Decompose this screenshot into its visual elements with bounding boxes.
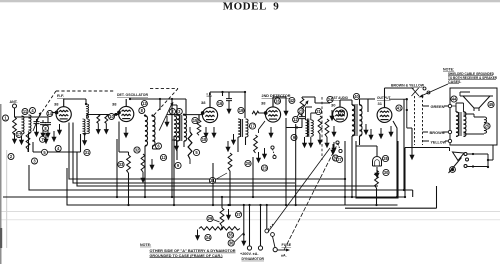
wire RF plate top: [64, 99, 86, 104]
ground arrow mid cluster: [149, 159, 154, 170]
IF T1 core: [180, 115, 182, 141]
ground arrow under primary: [19, 134, 24, 145]
junction dot 160-99: [159, 98, 161, 100]
twisted pair into cable: [412, 88, 420, 97]
callout 9: [175, 162, 181, 168]
junction dot 352 bus: [351, 196, 353, 198]
scan artifact: faint horizontal rule 2: [0, 218, 500, 221]
junction dot 295.7 bus: [295, 204, 297, 206]
junction dot sw b: [487, 159, 489, 161]
wire switch pole lead: [266, 205, 268, 229]
IF transformer T1 secondary: [184, 115, 187, 141]
svg-text:40: 40: [354, 94, 359, 99]
switch wiring right: [467, 154, 488, 167]
svg-text:23: 23: [299, 109, 304, 114]
svg-text:38: 38: [112, 102, 117, 107]
wire: bottom bus y190: [29, 165, 413, 197]
audio transformer core: [355, 104, 357, 136]
ground arrow under antenna resistor: [12, 133, 17, 144]
wire yellow lead: [423, 140, 449, 142]
svg-text:17: 17: [250, 124, 255, 129]
IF T2 core: [241, 119, 243, 137]
svg-text:29: 29: [208, 216, 213, 221]
ground arrow T2 a: [231, 134, 236, 145]
tube V6 output 31: [377, 95, 392, 122]
wire pot top: [302, 97, 315, 98]
svg-text:BROWN: BROWN: [430, 131, 445, 135]
svg-text:21: 21: [316, 109, 321, 114]
svg-text:YELLOW: YELLOW: [431, 141, 447, 145]
ground arrow interstage b: [308, 137, 313, 148]
svg-text:ANT.: ANT.: [10, 100, 18, 104]
antenna terminal: [13, 104, 17, 108]
wire: bottom bus y205: [67, 168, 398, 205]
audio section shield dashed: [321, 97, 323, 160]
wire switch b to fuse: [273, 236, 276, 247]
ground arrow right of output: [409, 149, 414, 160]
junction dot 374 bus: [375, 204, 377, 206]
callout 40: [353, 93, 359, 99]
wire output plate up: [385, 88, 415, 99]
junction dot 405-197: [404, 196, 406, 198]
capacitor, tuning: [34, 119, 40, 126]
junction dot osc plate: [129, 98, 131, 100]
wire output cathode drop: [393, 121, 397, 197]
callout 16b above det: [274, 98, 280, 104]
ground arrow det cluster b: [262, 148, 267, 159]
dashed top edge: [56, 90, 114, 92]
wire into rheostat: [449, 148, 451, 152]
audio transformer secondary: [360, 105, 363, 136]
svg-text:NOTE:: NOTE:: [140, 243, 151, 247]
ground arrow tap: [172, 139, 177, 141]
wire output grid riser: [368, 98, 375, 100]
svg-text:+200V. ±A.: +200V. ±A.: [240, 252, 259, 256]
wire: bottom bus y208: [345, 186, 437, 208]
callout 13: [141, 101, 147, 107]
ground arrow pair mid-left a: [43, 133, 48, 144]
capacitor column 2: [40, 120, 46, 127]
ground arrow tone switch: [330, 144, 335, 155]
svg-text:1ST AUDIO: 1ST AUDIO: [332, 96, 348, 100]
callout 21: [209, 177, 215, 183]
callout 12b: [293, 117, 299, 123]
tube V4 2nd detector 38: [261, 94, 291, 122]
svg-text:45: 45: [489, 102, 494, 107]
resistor under T2: [254, 135, 258, 153]
callout 25: [484, 123, 490, 129]
dashed diagonal fuse lead: [284, 143, 338, 250]
callout 2 osc: [170, 109, 176, 115]
wire osc coils bottom: [145, 136, 174, 205]
svg-text:37: 37: [236, 212, 241, 217]
callout 4: [30, 108, 36, 114]
callout 18: [201, 136, 207, 142]
callout 17 left: [16, 132, 22, 138]
junction dot 406.8a: [406, 98, 408, 100]
screen bus wire: [33, 151, 81, 153]
wire cap to tap: [286, 121, 302, 128]
bias resistor b: [105, 115, 108, 124]
wire audio sec top: [360, 99, 369, 112]
junction dot 406.8b: [406, 109, 408, 111]
callout 10: [109, 114, 115, 120]
junction dot IF top b: [244, 91, 246, 93]
svg-text:31: 31: [378, 101, 383, 106]
resistor AF grid: [325, 119, 329, 137]
junction dot coupling: [83, 133, 85, 135]
svg-text:12: 12: [161, 155, 166, 160]
wire dropping junction: [243, 205, 245, 235]
antenna coil secondary: [29, 115, 32, 133]
callout 11: [22, 109, 28, 115]
junction dot 397 bus: [396, 196, 398, 198]
speaker cone: [460, 96, 493, 111]
svg-text:34: 34: [206, 235, 211, 240]
ground arrow under IF tube b: [211, 127, 216, 138]
callout 42: [289, 97, 295, 103]
volume control potentiometer: [300, 98, 304, 116]
wire filament drop x404: [403, 99, 405, 190]
wire ANT down: [15, 108, 49, 117]
junction dot 249.5 bus: [248, 204, 250, 206]
svg-text:R.F.: R.F.: [57, 93, 64, 98]
bottom note text: [140, 243, 236, 258]
callout 6: [156, 143, 162, 149]
tube V2 detector-oscillator 38: [112, 93, 148, 122]
callout 23b: [298, 108, 304, 114]
svg-text:25: 25: [485, 124, 490, 129]
wire IF plate top: [210, 91, 245, 93]
junction dot 253: [252, 196, 254, 198]
leader 36 diagonal: [234, 233, 244, 243]
junction dot 345: [344, 178, 346, 180]
svg-text:16: 16: [275, 99, 280, 104]
svg-text:MODEL 9: MODEL 9: [223, 1, 280, 13]
wire coupling bottoms: [83, 133, 87, 135]
svg-text:13: 13: [142, 101, 147, 106]
output transformer core: [459, 112, 461, 136]
tone switch contacts: [336, 141, 342, 153]
wire 222 resistor to filter: [221, 197, 223, 229]
dial lamp enclosure wires: [356, 141, 398, 198]
leader line callout 21: [216, 173, 228, 180]
callout 27: [336, 156, 342, 162]
ground arrow pair mid-left b: [51, 131, 56, 142]
grid leak zigzag left of det: [252, 111, 266, 115]
callout 17b: [249, 123, 255, 129]
wire screen bus drop: [32, 142, 34, 152]
svg-text:30: 30: [331, 103, 336, 108]
svg-text:32: 32: [135, 148, 140, 153]
B+ dropping resistor: [220, 208, 224, 226]
wire cap col: [223, 92, 230, 96]
svg-text:12: 12: [293, 117, 298, 122]
callout 21b: [315, 108, 321, 114]
junction dot 345b: [344, 196, 346, 198]
pilot lamp: [373, 157, 382, 167]
junction dot osc coil C bus: [173, 204, 175, 206]
resistor bias 32: [141, 154, 145, 172]
callout 22: [338, 110, 344, 116]
dashed right slant edge: [153, 89, 178, 116]
ground arrow output b: [388, 126, 393, 137]
filter resistor horizontal: [199, 227, 240, 230]
resistor screen left: [26, 132, 30, 150]
callout 34: [205, 234, 211, 240]
note text top right: [443, 68, 497, 84]
resistor AVC long: [188, 132, 192, 159]
junction dot 172-99: [171, 98, 173, 100]
junction dot sw d: [487, 166, 489, 168]
RF plate coil: [86, 104, 89, 118]
ground arrow under det tube: [268, 127, 273, 138]
wire interstage tops: [306, 107, 316, 120]
bias resistor a: [97, 115, 100, 124]
ground arrow 244.5: [241, 235, 246, 246]
callout 8: [139, 108, 145, 114]
svg-text:11: 11: [23, 109, 28, 114]
IF transformer T2 primary: [238, 119, 241, 137]
callout 20: [245, 160, 251, 166]
callout 29: [207, 215, 213, 221]
junction dot 285 bus: [285, 204, 287, 206]
svg-text:27: 27: [337, 157, 342, 162]
callout 33: [118, 161, 124, 167]
scan artifact: top grey bar: [0, 0, 500, 2]
svg-text:FUSE: FUSE: [282, 243, 292, 247]
antenna section: [10, 100, 49, 117]
wire det out right: [285, 97, 287, 105]
wire det cathode down: [259, 121, 266, 133]
osc coil C: [174, 116, 177, 140]
ground arrow under RF cathode: [57, 124, 62, 135]
wire green lead: [423, 105, 449, 107]
callout 8b: [43, 125, 49, 131]
ground arrow under lamp: [374, 167, 379, 178]
wire long vertical x295.7: [295, 124, 297, 205]
svg-text:38: 38: [54, 102, 59, 107]
interstage core: [307, 119, 308, 138]
callout 31: [84, 149, 90, 155]
wire tone drop: [344, 141, 346, 205]
junction dot 260.5 bus: [259, 204, 261, 206]
callout 1: [3, 115, 9, 121]
callout 2 far left: [8, 154, 14, 160]
output transformer secondary: [464, 112, 467, 136]
wire x412 drop: [407, 128, 412, 149]
wire T1 tops: [167, 105, 203, 115]
speaker box: [450, 88, 497, 145]
ground arrow audio trans b: [368, 129, 373, 140]
wire speaker trans top to cone: [456, 92, 470, 112]
capacitor screen bypass: [226, 96, 232, 103]
callout 4b: [55, 146, 61, 152]
junction dot T1 right: [183, 113, 185, 115]
fuse terminal: [273, 248, 277, 252]
wire: bottom bus y183: [73, 123, 295, 184]
capacitor AF coupling: [299, 114, 305, 121]
ground arrow AF grid: [324, 137, 329, 148]
rheostat contact b: [466, 158, 469, 161]
svg-text:±A.: ±A.: [281, 254, 287, 258]
svg-text:14: 14: [48, 111, 53, 116]
wire audio trans bottoms: [352, 136, 360, 197]
battery switch pole: [265, 229, 275, 236]
svg-text:20: 20: [246, 161, 251, 166]
resistor volume long: [228, 153, 232, 171]
wire lamp top feed: [356, 146, 377, 156]
grid wire RF: [47, 117, 49, 120]
tube V3 IF 38: [199, 92, 218, 123]
wire: bottom bus y186: [77, 152, 378, 186]
svg-text:33: 33: [119, 162, 124, 167]
junction dot coil A: [144, 114, 146, 116]
audio transformer primary: [352, 105, 355, 136]
svg-text:19: 19: [239, 108, 244, 113]
ground arrow B+ area: [226, 209, 231, 220]
svg-text:10: 10: [109, 114, 114, 119]
wire long vertical x117: [116, 139, 118, 197]
svg-text:30: 30: [384, 170, 389, 175]
ground arrow under IF tube: [203, 127, 208, 138]
ground arrow under output tube: [378, 128, 383, 139]
svg-text:GREEN: GREEN: [431, 105, 445, 109]
ground arrow T2 b: [225, 141, 230, 152]
junction dot 230 bus: [229, 204, 231, 206]
svg-text:CASES.: CASES.: [448, 80, 461, 84]
ground arrow osc mid: [164, 116, 169, 127]
ground arrow det cluster a: [256, 152, 261, 163]
shielded terminal bullseye: [450, 167, 456, 173]
junction dot IF top a: [221, 91, 223, 93]
callout 15: [192, 117, 198, 123]
ground arrow on riser: [174, 140, 179, 151]
wire long vertical x285: [285, 118, 287, 205]
wire screen res to bus: [27, 150, 29, 153]
svg-text:36: 36: [229, 241, 234, 246]
callout 19: [238, 107, 244, 113]
callout 5: [193, 149, 199, 155]
junction dot tap: [296, 126, 298, 128]
speaker terminals on box edge: [448, 104, 451, 142]
wire IF out top: [244, 92, 246, 118]
resistor det load: [318, 116, 322, 134]
wire volume resistor lower: [229, 171, 231, 185]
callout 5b on screen bus: [42, 149, 48, 155]
RF coupling coil left: [83, 119, 86, 134]
callout 36: [228, 240, 234, 246]
dashed top edge right of label: [150, 88, 178, 90]
wire osc cathode L: [119, 122, 129, 156]
switch contacts IF area: [271, 146, 276, 159]
RF coupling coil right: [87, 119, 90, 134]
svg-text:OTHER SIDE OF "A" BATTERY & DY: OTHER SIDE OF "A" BATTERY & DYNAMOTOR: [150, 249, 236, 253]
callout 30: [383, 169, 389, 175]
callout 41: [396, 105, 402, 111]
ground arrow bias a: [96, 123, 101, 134]
rheostat triangle: [453, 152, 465, 161]
callout 14: [47, 111, 53, 117]
callout 32: [134, 147, 140, 153]
svg-text:18: 18: [202, 137, 207, 142]
antenna coil primary: [22, 116, 25, 134]
callout 3b: [176, 109, 182, 115]
wiper arm: [449, 158, 462, 174]
rheostat contact a: [464, 153, 467, 156]
ground arrow col2: [40, 127, 45, 138]
junction dot 228 bus: [227, 204, 229, 206]
leader 29: [213, 220, 220, 223]
ground arrow audio trans a: [363, 124, 368, 135]
interstage transformer primary: [306, 120, 309, 136]
junction dot sw a: [472, 153, 474, 155]
junction dot 404: [403, 189, 405, 191]
ground arrow interstage a: [302, 137, 307, 148]
dynamotor terminal plus: [247, 246, 251, 250]
wire osc plate top: [130, 99, 186, 115]
osc coil A: [145, 116, 148, 146]
svg-text:44: 44: [452, 97, 457, 102]
IF transformer T2 secondary: [246, 119, 249, 137]
resistor bias 33: [127, 155, 131, 173]
wire RF to osc grid: [87, 115, 119, 119]
svg-text:16: 16: [218, 101, 223, 106]
junction dot osc coil A bus: [144, 196, 146, 198]
svg-text:38: 38: [261, 101, 266, 106]
dashed left slant edge: [36, 91, 56, 121]
callout 9b: [291, 135, 297, 141]
cable top terminal a: [423, 87, 426, 90]
ground arrow audio mid b: [331, 142, 336, 153]
svg-text:17: 17: [17, 132, 22, 137]
callout 35: [227, 232, 233, 238]
output transformer primary: [456, 112, 459, 136]
junction dot sw c: [472, 165, 474, 167]
trimmer capacitor arrow: [33, 112, 42, 131]
svg-text:15: 15: [193, 118, 198, 123]
svg-text:DYNAMOTOR: DYNAMOTOR: [242, 257, 265, 261]
tube V5 1st audio 30: [331, 96, 348, 122]
speaker cable shield dashed right: [422, 96, 424, 145]
callout 39: [333, 155, 339, 161]
wire x80.5 to screen bus: [80, 134, 82, 152]
callout 12: [160, 154, 166, 160]
callout 37: [235, 211, 241, 217]
wire long vertical x230: [229, 185, 231, 205]
voice coil: [484, 117, 487, 133]
ground arrow det load: [317, 134, 322, 145]
field switch assembly: [449, 145, 494, 173]
wire T1 bottoms: [177, 141, 184, 160]
ground arrow under tuning cap: [34, 126, 39, 137]
wire: bottom bus y179: [69, 123, 345, 180]
ground arrow under osc tube: [123, 127, 128, 138]
svg-text:23: 23: [262, 166, 267, 171]
svg-text:BROWN & YELLOW: BROWN & YELLOW: [391, 84, 425, 88]
pot wiper arrow: [296, 100, 309, 119]
svg-text:38: 38: [201, 100, 206, 105]
interstage transformer secondary: [311, 120, 314, 136]
ground arrow grid cap: [45, 127, 50, 138]
scan artifact: left edge dark smudge: [0, 228, 2, 248]
svg-text:28: 28: [383, 156, 388, 161]
speaker cable shield dashed left: [414, 96, 416, 145]
junction square osc grid: [115, 113, 118, 116]
junction dot x117 bus: [116, 196, 118, 198]
wire output top second: [389, 99, 407, 128]
resistor IF grid: [197, 120, 201, 135]
